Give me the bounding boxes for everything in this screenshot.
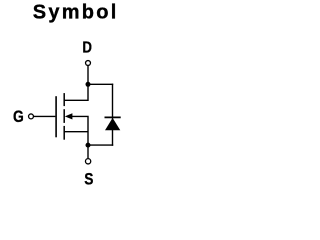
wire diode branch vertical	[112, 84, 114, 146]
mosfet body arrow	[65, 113, 73, 119]
wire source contact lead	[65, 131, 89, 133]
wire gate lead	[34, 115, 55, 117]
mosfet channel middle segment	[63, 109, 65, 123]
svg-text:Symbol: Symbol	[33, 1, 117, 23]
svg-text:S: S	[84, 170, 93, 189]
node drain junction dot	[86, 82, 91, 87]
wire source node to diode branch	[88, 144, 113, 146]
source terminal circle	[85, 159, 90, 164]
wire drain terminal to drain node	[87, 66, 89, 84]
svg-text:G: G	[13, 108, 24, 126]
svg-text:D: D	[82, 40, 92, 57]
mosfet channel top segment	[63, 93, 65, 106]
diode anode triangle	[105, 118, 120, 130]
wire drain contact lead	[65, 84, 89, 100]
wire source node to source terminal	[87, 145, 89, 158]
diode cathode bar	[105, 116, 121, 118]
wire body lead	[72, 116, 88, 145]
node source junction dot	[86, 143, 91, 148]
mosfet channel bottom segment	[63, 126, 65, 140]
drain terminal circle	[86, 61, 91, 66]
gate terminal circle	[29, 114, 34, 119]
mosfet gate bar	[55, 96, 57, 137]
wire drain node to diode branch	[88, 83, 113, 85]
